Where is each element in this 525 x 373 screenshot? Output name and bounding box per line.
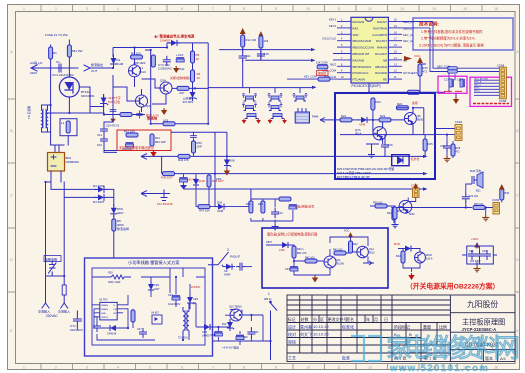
svg-text:9: 9 bbox=[275, 366, 277, 370]
svg-text:KEY2: KEY2 bbox=[474, 91, 480, 93]
wire Q2/Q3 base link bbox=[113, 75, 166, 112]
wire mid rail bbox=[135, 48, 151, 124]
button K4 bbox=[242, 103, 257, 111]
svg-text:KEY1: KEY1 bbox=[474, 88, 480, 90]
svg-text:4: 4 bbox=[117, 366, 119, 370]
resistor R23 bbox=[379, 118, 391, 122]
svg-text:C11: C11 bbox=[97, 133, 102, 137]
svg-text:R30: R30 bbox=[505, 192, 510, 195]
svg-text:NB: NB bbox=[383, 58, 387, 62]
svg-text:R41 103: R41 103 bbox=[305, 257, 315, 260]
svg-text:11: 11 bbox=[337, 366, 341, 370]
wire regulator input bbox=[213, 310, 263, 346]
wire rail A bbox=[141, 155, 426, 157]
svg-text:7: 7 bbox=[212, 366, 214, 370]
capacitor C31 bbox=[236, 263, 246, 271]
wire rail 3 keyscan bbox=[208, 87, 314, 89]
resistor R5b bbox=[191, 70, 195, 82]
wire below MCU bbox=[369, 76, 445, 92]
svg-text:R20: R20 bbox=[108, 272, 113, 275]
wire emitter bus bbox=[340, 122, 435, 144]
svg-text:B04 47K: B04 47K bbox=[297, 252, 307, 255]
svg-text:VCC: VCC bbox=[344, 230, 349, 233]
key terminal cross bbox=[160, 190, 168, 201]
svg-text:RT1/AN/N: RT1/AN/N bbox=[353, 78, 366, 82]
svg-text:10.10.19: 10.10.19 bbox=[313, 324, 329, 329]
svg-text:R43 103: R43 103 bbox=[333, 249, 343, 252]
MCU right pin wire labels bbox=[403, 20, 417, 75]
svg-text:+C10: +C10 bbox=[176, 53, 184, 57]
svg-text:比例: 比例 bbox=[439, 324, 447, 330]
annotation box blue (IGBT drive) bbox=[335, 93, 435, 179]
svg-text:8: 8 bbox=[243, 366, 245, 370]
MCU left pin wires labels bbox=[322, 18, 337, 80]
svg-text:RA1/NT: RA1/NT bbox=[377, 20, 387, 24]
wire harness to CON8 bbox=[474, 80, 499, 95]
title block table bbox=[287, 295, 515, 362]
svg-text:假负载(说明),2只铝管电路,预防开路: 假负载(说明),2只铝管电路,预防开路 bbox=[267, 232, 318, 237]
resistor R43 bbox=[334, 251, 346, 255]
wire button drops bbox=[250, 87, 301, 93]
power arrow bbox=[417, 57, 423, 64]
resistor R20 bbox=[111, 275, 124, 279]
button K7 with LED bbox=[268, 114, 287, 124]
ground bbox=[474, 266, 481, 272]
svg-text:C33: C33 bbox=[285, 268, 290, 271]
transformer T2 bbox=[183, 307, 189, 335]
resistor R46 vertical bbox=[208, 174, 210, 176]
resistor R37 vertical bbox=[393, 207, 397, 219]
annotation box low-power PSU bbox=[85, 258, 213, 356]
svg-text:C17: C17 bbox=[444, 79, 449, 82]
wire buzzer drop bbox=[466, 184, 472, 208]
svg-text:RB0/AN5 INT: RB0/AN5 INT bbox=[353, 52, 370, 56]
svg-text:104: 104 bbox=[246, 54, 251, 58]
svg-text:4148: 4148 bbox=[117, 62, 124, 66]
wire SCR circuit bbox=[398, 249, 420, 273]
button K2 bbox=[268, 94, 283, 102]
wire feed bbox=[104, 95, 117, 152]
svg-text:R1: R1 bbox=[53, 51, 57, 55]
resistor R9 bbox=[163, 122, 175, 126]
capacitor C35 bbox=[190, 132, 197, 141]
ground bbox=[272, 224, 279, 230]
svg-text:Q2: Q2 bbox=[146, 104, 150, 108]
svg-text:刘文飞: 刘文飞 bbox=[300, 331, 312, 337]
svg-text:R33: R33 bbox=[246, 203, 251, 206]
svg-text:2: 2 bbox=[55, 366, 57, 370]
svg-text:Q3A: Q3A bbox=[160, 79, 166, 83]
svg-text:薄膜键: 薄膜键 bbox=[318, 71, 327, 75]
capacitor C21 bbox=[468, 250, 476, 260]
svg-text:RA0/TRAN: RA0/TRAN bbox=[373, 26, 387, 30]
svg-text:4148: 4148 bbox=[199, 179, 206, 183]
svg-text:R42: R42 bbox=[353, 243, 358, 246]
annotation box red bbox=[117, 130, 171, 151]
varistor RV1 bbox=[44, 256, 61, 262]
capacitor C29 ecap bbox=[236, 335, 244, 339]
svg-text:6V2: 6V2 bbox=[222, 323, 227, 326]
svg-text:备用: 备用 bbox=[412, 101, 418, 105]
connector CON4 bbox=[413, 188, 420, 198]
svg-text:9013W: 9013W bbox=[336, 263, 345, 266]
svg-text:485.2v: 485.2v bbox=[264, 298, 272, 301]
capacitor bank box bbox=[467, 246, 494, 264]
svg-text:10.10.23: 10.10.23 bbox=[313, 332, 329, 337]
svg-text:SEG_B: SEG_B bbox=[403, 26, 412, 30]
wire input bbox=[266, 233, 374, 275]
svg-text:标准化: 标准化 bbox=[342, 324, 354, 330]
svg-text:R12 103: R12 103 bbox=[246, 38, 257, 42]
transistor Q8 bbox=[399, 200, 412, 213]
svg-text:ZD2: ZD2 bbox=[216, 177, 222, 181]
svg-text:47K: 47K bbox=[179, 91, 184, 95]
svg-text:16: 16 bbox=[494, 366, 498, 370]
annotation box dummy load bbox=[262, 228, 388, 288]
wire bridge bottom to AC terminals bbox=[46, 171, 98, 303]
svg-text:1K: 1K bbox=[196, 57, 200, 61]
resistor network RN1 bbox=[295, 108, 309, 123]
svg-text:103: 103 bbox=[264, 39, 269, 43]
button K1 bbox=[242, 94, 257, 102]
svg-text:R24: R24 bbox=[397, 102, 403, 106]
transistor Q12 bbox=[357, 246, 369, 258]
resistor R36 bbox=[375, 204, 387, 208]
resistor NTC red label bbox=[104, 114, 145, 116]
diode D14 bbox=[107, 325, 119, 331]
svg-text:U3 TNY: U3 TNY bbox=[99, 299, 108, 302]
capacitor C15 bbox=[257, 50, 265, 60]
wire enable section bbox=[251, 199, 293, 224]
resistor R7 vertical bbox=[151, 55, 155, 67]
zener D2 bbox=[101, 95, 108, 107]
resistor R40 vertical bbox=[292, 246, 296, 258]
svg-text:阶段标记: 阶段标记 bbox=[394, 324, 410, 330]
resistor R12 bbox=[241, 35, 245, 47]
wire Q6 collector bbox=[373, 108, 424, 135]
svg-text:CR4148: CR4148 bbox=[107, 333, 117, 336]
svg-text:R34: R34 bbox=[258, 203, 263, 206]
svg-text:RC2/AN6: RC2/AN6 bbox=[375, 71, 387, 75]
wire transformer bbox=[183, 303, 201, 340]
svg-text:12: 12 bbox=[368, 7, 372, 11]
resistor R15 vertical bbox=[418, 64, 422, 76]
capacitor C36 bbox=[110, 106, 117, 115]
svg-text:OSC2 CLK: OSC2 CLK bbox=[322, 37, 336, 41]
resistor R32 vertical bbox=[401, 251, 405, 263]
wire rail VCC top bbox=[219, 49, 313, 51]
svg-text:Q10 T8550: Q10 T8550 bbox=[229, 306, 242, 309]
wire IC connections bbox=[92, 295, 155, 340]
svg-text:OUT: OUT bbox=[91, 69, 98, 73]
svg-text:RA4/AN: RA4/AN bbox=[377, 46, 387, 50]
svg-text:3.25/0R(1B224) 为PC3暂稳, 顶层省示 更换: 3.25/0R(1B224) 为PC3暂稳, 顶层省示 更换. bbox=[419, 43, 485, 48]
svg-text:6V8: 6V8 bbox=[230, 159, 235, 163]
capacitor C23 bbox=[271, 208, 279, 218]
power VCC arrow bbox=[240, 28, 246, 35]
resistor R25 vertical bbox=[423, 139, 427, 151]
resistor R11 vertical bbox=[150, 134, 154, 146]
svg-text:FUSE F1 T3.15A: FUSE F1 T3.15A bbox=[45, 33, 68, 37]
diode D20 bbox=[215, 204, 227, 210]
svg-text:CR2: CR2 bbox=[154, 284, 160, 287]
svg-text:小功率线路 雷管接入式方案: 小功率线路 雷管接入式方案 bbox=[128, 259, 180, 266]
annotation box magenta small bbox=[438, 76, 467, 93]
vertical lines left section bbox=[300, 295, 392, 362]
svg-text:RC1/INT: RC1/INT bbox=[376, 39, 387, 43]
red dashed label bbox=[473, 103, 509, 105]
wire rail B bbox=[162, 156, 426, 173]
MCU pin labels bbox=[353, 20, 374, 82]
vertical lines middle section bbox=[406, 295, 450, 362]
svg-text:整流采样: 整流采样 bbox=[117, 226, 129, 231]
capacitor C25 bbox=[172, 296, 180, 300]
power arrow bbox=[474, 242, 479, 248]
transformer T1 bbox=[42, 105, 51, 132]
resistor R45 bbox=[163, 172, 175, 176]
wire to connector top bbox=[402, 22, 499, 93]
svg-text:C31: C31 bbox=[254, 331, 259, 334]
capacitor C19 bbox=[443, 142, 451, 152]
svg-text:R45 103*: R45 103* bbox=[161, 176, 174, 180]
svg-text:RB1/AN4: RB1/AN4 bbox=[375, 65, 387, 69]
svg-text:BUZ1: BUZ1 bbox=[394, 243, 401, 246]
svg-text:103/50V: 103/50V bbox=[191, 286, 201, 289]
capacitor C20 bbox=[462, 193, 470, 203]
svg-text:九阳股份: 九阳股份 bbox=[467, 299, 498, 309]
resistor R21 bbox=[340, 118, 352, 122]
wire left verticals bbox=[215, 132, 251, 206]
diode D6 bbox=[168, 40, 180, 46]
svg-text:GND/S: GND/S bbox=[101, 317, 108, 319]
svg-text:TR 互感器: TR 互感器 bbox=[27, 106, 31, 119]
svg-text:3: 3 bbox=[86, 7, 88, 11]
svg-text:10K COM: 10K COM bbox=[316, 61, 327, 65]
svg-text:K41 6N4148: K41 6N4148 bbox=[157, 202, 173, 206]
svg-text:2.带**号功耗精度为5%,小功率为1%.: 2.带**号功耗精度为5%,小功率为1%. bbox=[421, 36, 476, 41]
svg-text:8550: 8550 bbox=[417, 118, 424, 122]
MCU pins right bbox=[388, 22, 402, 80]
capacitor C14 bbox=[239, 52, 247, 62]
pin numbers bbox=[341, 19, 397, 80]
svg-text:PIC16C57C-S(SOP): PIC16C57C-S(SOP) bbox=[352, 84, 381, 88]
svg-text:RB4/OSC/AN8: RB4/OSC/AN8 bbox=[353, 39, 372, 43]
svg-text:2: 2 bbox=[55, 7, 57, 11]
wire triac to transformer bbox=[46, 95, 104, 114]
wire bridge top bbox=[51, 136, 69, 153]
svg-text:LED_C: LED_C bbox=[474, 85, 481, 87]
svg-text:KEY2: KEY2 bbox=[329, 24, 337, 28]
svg-text:R31: R31 bbox=[387, 212, 392, 215]
svg-text:SEG_B: SEG_B bbox=[474, 82, 482, 84]
zener D9 bbox=[224, 157, 231, 169]
svg-text:4148: 4148 bbox=[217, 209, 224, 213]
svg-text:100-6: 100-6 bbox=[426, 258, 433, 261]
svg-text:KEY_COM: KEY_COM bbox=[304, 75, 317, 79]
opto-triac U2 MOC3061 bbox=[59, 77, 79, 97]
resistor R5a bbox=[191, 51, 195, 63]
wire left vertical rail bbox=[51, 40, 70, 145]
ground red arrow bbox=[408, 273, 414, 280]
svg-text:2: 2 bbox=[227, 248, 229, 252]
diode D15 bbox=[201, 324, 213, 330]
svg-text:交流输入: 交流输入 bbox=[58, 309, 70, 314]
svg-text:校对: 校对 bbox=[288, 331, 296, 337]
wire input bbox=[320, 110, 404, 126]
svg-text:PWM: PWM bbox=[312, 115, 318, 119]
ground below bbox=[453, 97, 459, 104]
svg-text:SEG_A: SEG_A bbox=[403, 20, 412, 24]
node rectifier-out terminal arrows bbox=[84, 65, 90, 71]
diode D18 bbox=[279, 242, 291, 248]
svg-text:（开关电源采用OB2226方案）: （开关电源采用OB2226方案） bbox=[406, 282, 499, 291]
svg-text:MOC3061: MOC3061 bbox=[81, 94, 95, 98]
svg-text:4007: 4007 bbox=[154, 288, 160, 291]
svg-text:D3 4007: D3 4007 bbox=[93, 184, 105, 188]
power arrow bbox=[348, 232, 353, 238]
svg-text:关断(控制电路): 关断(控制电路) bbox=[170, 75, 190, 80]
diode D17 bbox=[223, 264, 235, 270]
emitter arrow bbox=[368, 261, 372, 265]
transistor Q10 regulator bbox=[230, 309, 242, 321]
svg-text:R21: R21 bbox=[341, 114, 347, 118]
svg-text:224 630V: 224 630V bbox=[470, 260, 481, 263]
ground bbox=[392, 222, 399, 228]
capacitor C1 bbox=[55, 64, 65, 72]
capacitor C32 bbox=[290, 267, 298, 271]
svg-text:200K 1/2W: 200K 1/2W bbox=[108, 281, 121, 284]
resistor R31 vertical bbox=[392, 208, 396, 220]
AC terminal N bbox=[61, 303, 68, 308]
table header text bbox=[288, 316, 389, 322]
svg-text:RB7/PGD/AN3: RB7/PGD/AN3 bbox=[353, 65, 372, 69]
inner box bbox=[92, 268, 205, 345]
bridge rectifier BD1 bbox=[48, 153, 65, 172]
resistor R42 vertical bbox=[349, 241, 353, 253]
svg-text:D4 4007: D4 4007 bbox=[93, 200, 105, 204]
svg-text:10uF/400V: 10uF/400V bbox=[168, 303, 181, 306]
svg-text:6: 6 bbox=[181, 7, 183, 11]
svg-text:7: 7 bbox=[212, 7, 214, 11]
svg-text:1: 1 bbox=[268, 292, 270, 296]
capacitor C18 bbox=[460, 79, 464, 87]
svg-text:C1/LAMP/N: C1/LAMP/N bbox=[372, 33, 387, 37]
right section lines bbox=[450, 313, 515, 362]
resistor R35 bbox=[279, 197, 291, 201]
node arrows bbox=[423, 155, 428, 158]
svg-text:重量: 重量 bbox=[423, 324, 431, 330]
power down arrow bbox=[150, 150, 156, 157]
svg-text:处数: 处数 bbox=[301, 316, 309, 322]
svg-text:220VAC: 220VAC bbox=[46, 314, 58, 318]
capacitor C12 bbox=[100, 135, 108, 145]
wire diode join bbox=[107, 189, 114, 206]
svg-text:15: 15 bbox=[463, 7, 467, 11]
svg-text:5: 5 bbox=[149, 7, 151, 11]
svg-text:C19: C19 bbox=[440, 145, 445, 148]
svg-text:日: 日 bbox=[384, 317, 388, 322]
svg-text:压敏电阻: 压敏电阻 bbox=[45, 256, 57, 261]
resistor R44 bbox=[178, 154, 190, 158]
svg-text:3: 3 bbox=[86, 366, 88, 370]
svg-text:1K: 1K bbox=[197, 76, 201, 80]
svg-text:6: 6 bbox=[181, 366, 183, 370]
svg-text:年: 年 bbox=[366, 316, 370, 322]
svg-text:103: 103 bbox=[163, 119, 168, 123]
svg-text:KEY1: KEY1 bbox=[329, 18, 337, 22]
svg-text:13: 13 bbox=[400, 7, 404, 11]
wire right drop bbox=[193, 43, 209, 89]
diode D1 bbox=[111, 55, 117, 67]
resistor R24 top bbox=[396, 106, 408, 110]
opto U4 bbox=[152, 315, 162, 324]
svg-text:FNQL/97: FNQL/97 bbox=[230, 256, 241, 259]
svg-text:RA3: RA3 bbox=[353, 26, 359, 30]
svg-text:BUZ: BUZ bbox=[330, 62, 336, 66]
svg-text:无压线电源电平输出提示: 无压线电源电平输出提示 bbox=[119, 145, 154, 150]
svg-text:家电维修资料网: 家电维修资料网 bbox=[386, 333, 518, 363]
svg-text:+4.8~5V 输出: +4.8~5V 输出 bbox=[222, 346, 239, 350]
svg-text:签名: 签名 bbox=[346, 316, 354, 322]
resistor R13 bbox=[259, 36, 263, 48]
resistor R14 bbox=[408, 90, 420, 94]
svg-text:主控板原理图: 主控板原理图 bbox=[462, 318, 505, 327]
svg-text:C30: C30 bbox=[243, 336, 248, 339]
transistor Q6 bbox=[404, 113, 416, 125]
ground brown bbox=[312, 276, 318, 283]
resistor R34 vertical bbox=[261, 201, 265, 213]
resistor R48 10K bbox=[318, 64, 328, 66]
svg-text:472: 472 bbox=[456, 151, 461, 154]
svg-text:GND: GND bbox=[101, 313, 106, 315]
watermark brackets bbox=[351, 336, 381, 361]
wire rail C bbox=[184, 188, 427, 190]
resistor R29 bbox=[473, 206, 485, 210]
resistor R3 horizontal bbox=[131, 55, 143, 59]
svg-text:更改文件号: 更改文件号 bbox=[328, 316, 348, 322]
svg-text:C22: C22 bbox=[482, 250, 487, 253]
diode D19 bbox=[195, 174, 197, 177]
svg-text:+300V: +300V bbox=[471, 238, 479, 241]
svg-text:整流 4.7K: 整流 4.7K bbox=[146, 113, 159, 118]
svg-text:R23: R23 bbox=[380, 114, 386, 118]
resistor R30 vertical bbox=[500, 188, 504, 200]
resistor R50 vertical bbox=[192, 141, 196, 153]
svg-text:SEG_A/COM1: SEG_A/COM1 bbox=[474, 78, 489, 81]
svg-text:1N4007: 1N4007 bbox=[160, 39, 171, 43]
svg-text:CON8: CON8 bbox=[499, 99, 507, 103]
svg-text:批准: 批准 bbox=[342, 355, 350, 361]
svg-text:R22: R22 bbox=[376, 100, 382, 104]
svg-text:R47 104: R47 104 bbox=[199, 209, 210, 213]
svg-text:R32: R32 bbox=[396, 255, 401, 258]
resistor R28 vertical bbox=[451, 144, 455, 156]
svg-text:工艺: 工艺 bbox=[288, 356, 296, 361]
capacitor C26 bbox=[93, 322, 101, 332]
svg-text:L1: L1 bbox=[61, 121, 65, 125]
ground bbox=[482, 215, 489, 221]
diode D4 bbox=[95, 194, 107, 200]
wire stalk bbox=[243, 35, 261, 87]
wire top rail bbox=[113, 43, 208, 57]
transistor Q7 bbox=[373, 127, 386, 140]
svg-text:5V6 红色: 5V6 红色 bbox=[108, 99, 120, 104]
AC terminal L bbox=[42, 300, 49, 308]
zener D16 bbox=[227, 319, 234, 331]
svg-text:CR3: CR3 bbox=[193, 298, 199, 301]
diode D11 bbox=[402, 246, 414, 252]
diode D10 bbox=[358, 117, 370, 123]
